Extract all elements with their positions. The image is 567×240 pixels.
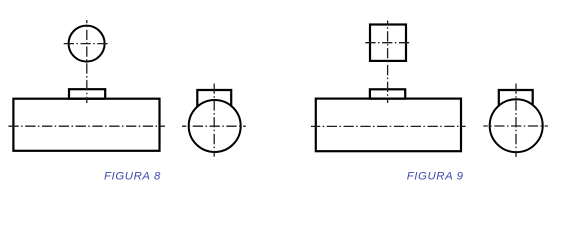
- svg-text:FIGURA 9: FIGURA 9: [407, 171, 464, 183]
- figure 8 : side view circle: [189, 100, 241, 152]
- figure 9 : main rectangle horizontal center line: [311, 125, 466, 127]
- figure 9 : side view vertical center line: [515, 84, 517, 158]
- figure 8 : vertical center line through circle and boss: [86, 20, 88, 103]
- figure 8 : main rectangle horizontal center line: [8, 125, 165, 127]
- figure 8 : front view main rectangle: [13, 99, 159, 151]
- figure 9 : top view square of boss: [370, 25, 406, 61]
- figure 9 : side view boss rectangle: [499, 90, 533, 107]
- figure 9 : side view horizontal center line: [483, 125, 548, 127]
- figure 9 : side view circle: [490, 99, 543, 152]
- figure 8 : side view vertical center line: [213, 84, 215, 157]
- figure 8 : top view circle of boss: [69, 26, 105, 62]
- figure 9 : front view main rectangle: [316, 99, 461, 152]
- figure 8 : boss rectangle on top of main rectangle: [69, 89, 105, 99]
- figure 8 : side view boss rectangle: [197, 90, 231, 108]
- figure 9 : square horizontal center line: [365, 42, 410, 44]
- figure 8 : side view horizontal center line: [182, 125, 246, 127]
- figure 8 : circle horizontal center line: [64, 43, 108, 45]
- figure 9 : boss rectangle on top of main rectangle: [370, 89, 405, 98]
- svg-text:FIGURA 8: FIGURA 8: [104, 171, 161, 183]
- figure 9 : vertical center line through square and boss: [387, 21, 389, 104]
